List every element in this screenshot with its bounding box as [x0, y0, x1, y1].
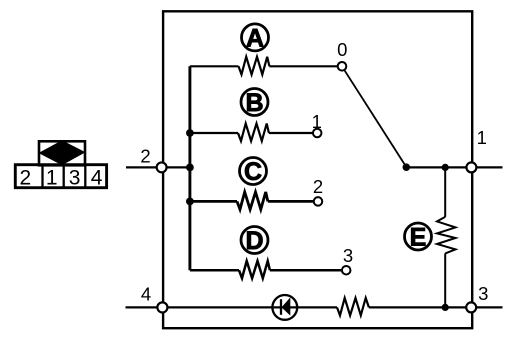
connector key diamond — [39, 140, 86, 165]
resistor B — [238, 124, 269, 142]
wire bottom rail right — [369, 306, 503, 308]
svg-text:1: 1 — [46, 167, 58, 190]
svg-text:4: 4 — [141, 284, 151, 305]
svg-text:3: 3 — [69, 167, 81, 190]
resistor bottom — [337, 298, 369, 315]
resistor C — [237, 192, 268, 209]
svg-text:2: 2 — [20, 167, 32, 190]
terminal 3 inner — [342, 266, 351, 275]
wire node 2 stub — [126, 166, 191, 168]
svg-text:E: E — [410, 224, 427, 252]
svg-text:0: 0 — [337, 39, 347, 60]
svg-text:1: 1 — [312, 111, 322, 132]
wire resistor C to terminal 2 — [268, 200, 314, 203]
terminal node 2 — [157, 162, 167, 172]
terminal 2 inner — [314, 197, 323, 206]
terminal 3 right — [466, 302, 476, 312]
terminal 1 right — [466, 162, 476, 172]
label A — [242, 24, 269, 53]
wire common to terminal 1 — [406, 166, 502, 168]
diode triangle — [282, 297, 291, 315]
connector pin separators — [43, 165, 86, 188]
wire bottom rail left — [126, 306, 338, 308]
terminal node 4 — [157, 302, 167, 312]
connector pin row outline — [15, 165, 106, 188]
resistor D — [239, 261, 270, 278]
package outline box — [163, 11, 472, 328]
wire to resistor E top — [444, 167, 446, 217]
svg-text:2: 2 — [140, 146, 150, 167]
wire bus to resistor A — [190, 65, 239, 67]
resistor E — [437, 217, 456, 254]
junction dot E bottom — [442, 304, 449, 311]
connector plug box — [39, 141, 85, 165]
svg-text:1: 1 — [477, 127, 487, 148]
junction dot bus node2 — [186, 164, 194, 172]
svg-text:3: 3 — [343, 245, 353, 266]
junction dot bus C — [186, 198, 194, 206]
svg-text:2: 2 — [313, 176, 323, 197]
diode cathode bar — [280, 299, 282, 315]
wire switch diagonal — [345, 70, 407, 167]
label D — [241, 227, 268, 256]
bus wire — [188, 66, 191, 270]
wire resistor D to terminal 3 — [270, 269, 342, 272]
terminal 1 inner — [313, 129, 322, 138]
wire resistor B to terminal 1 — [269, 132, 313, 134]
label E — [405, 223, 432, 252]
svg-text:3: 3 — [478, 283, 488, 304]
wire bus to resistor D — [190, 269, 239, 272]
wire bus to resistor B — [190, 132, 238, 134]
svg-text:B: B — [245, 89, 263, 117]
junction dot E top — [442, 164, 449, 171]
svg-text:A: A — [246, 24, 264, 52]
label B — [241, 89, 268, 118]
wire resistor E bottom — [444, 253, 446, 307]
diode K circle — [272, 295, 297, 320]
resistor A — [239, 57, 270, 75]
label C — [240, 158, 267, 187]
svg-text:4: 4 — [91, 167, 103, 190]
wire resistor A to terminal 0 — [269, 65, 337, 67]
terminal 0 — [338, 62, 347, 71]
svg-text:D: D — [245, 227, 263, 255]
junction dot bus B — [186, 129, 194, 137]
svg-text:C: C — [244, 158, 262, 186]
junction dot diagonal — [403, 163, 411, 171]
wire bus to resistor C — [190, 200, 237, 203]
